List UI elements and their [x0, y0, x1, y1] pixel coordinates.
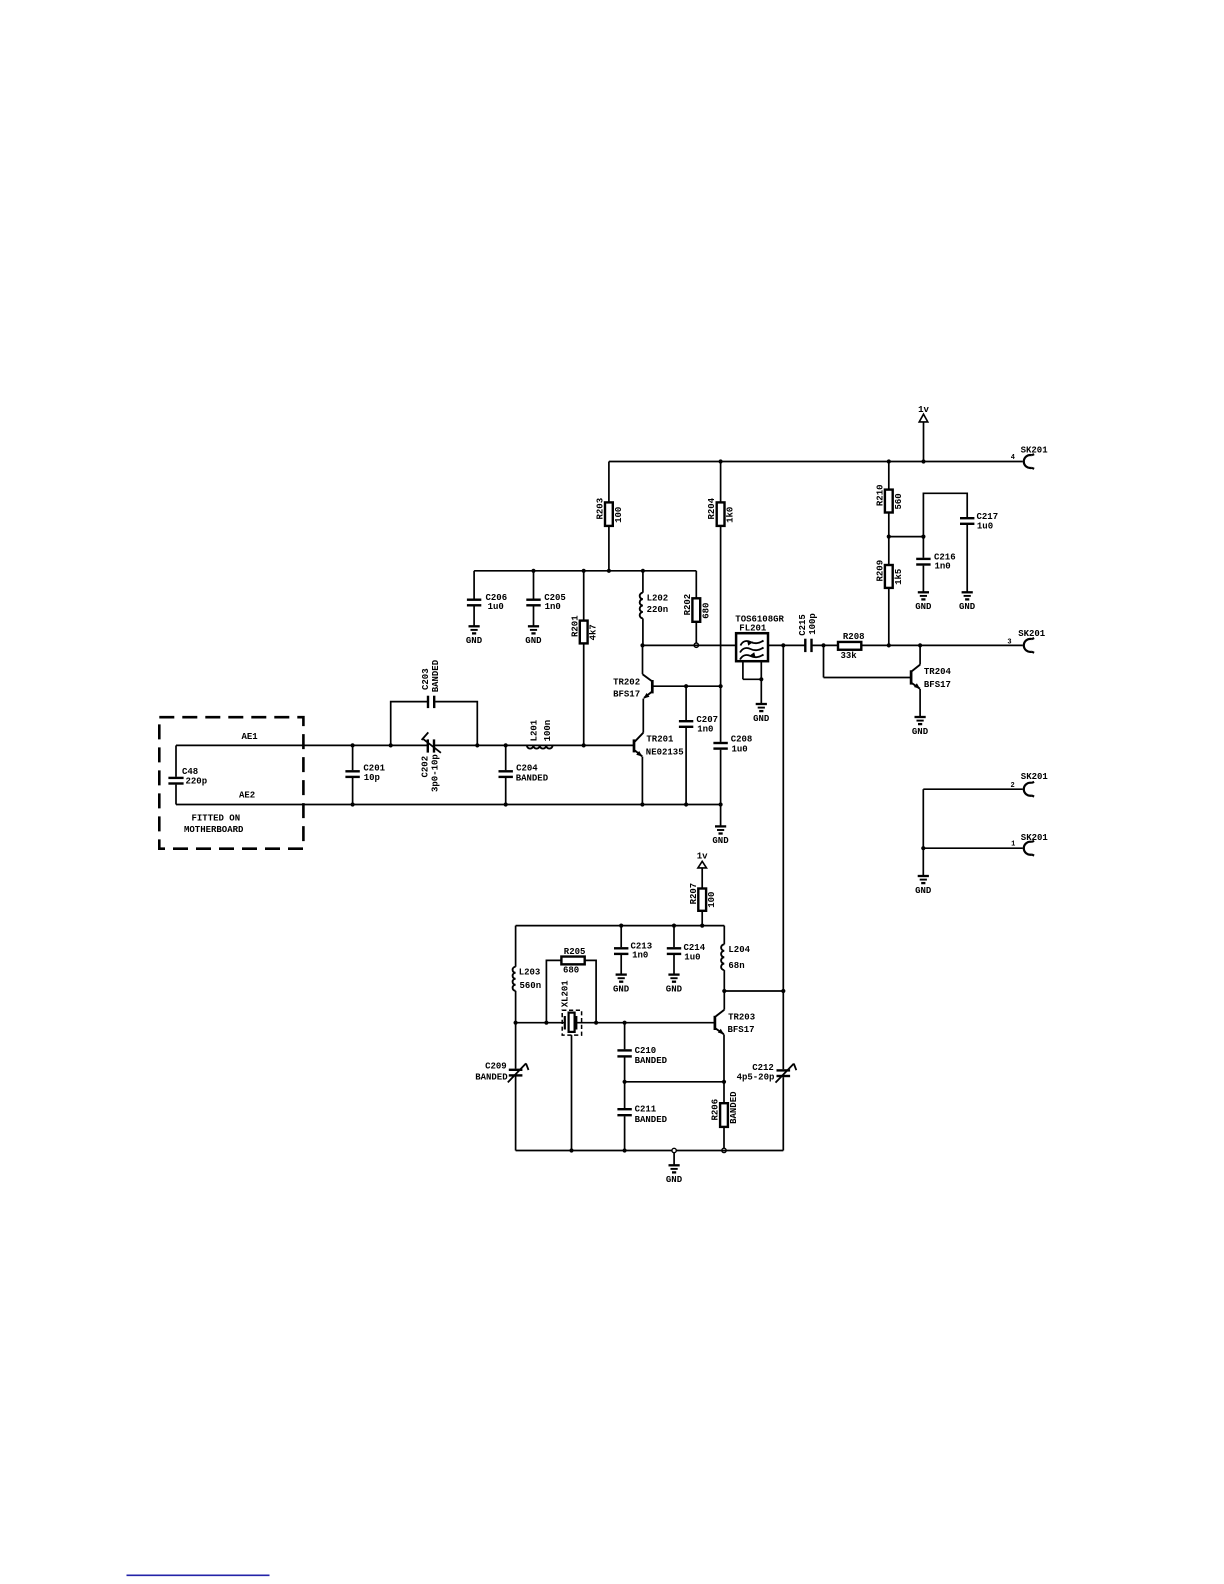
junction [641, 569, 645, 573]
junction [821, 643, 825, 647]
svg-text:L204: L204 [728, 945, 750, 955]
resistor R202 [683, 594, 711, 622]
svg-text:SK201: SK201 [1018, 629, 1046, 639]
wire [435, 702, 477, 746]
resistor R207 [689, 883, 717, 911]
wire [474, 570, 696, 572]
wire [583, 571, 585, 621]
svg-text:4k7: 4k7 [589, 624, 599, 640]
inductor L202 [640, 593, 669, 619]
wire [760, 679, 762, 703]
svg-text:1k5: 1k5 [894, 569, 904, 585]
svg-text:1u0: 1u0 [732, 744, 748, 754]
ground [525, 626, 542, 646]
wire [720, 686, 722, 742]
svg-text:R209: R209 [875, 560, 885, 582]
capacitor C216 [916, 552, 955, 571]
svg-text:220p: 220p [186, 776, 208, 786]
wire [624, 1023, 626, 1050]
inductor L204 [721, 944, 751, 971]
node emitter wire [625, 1081, 724, 1083]
svg-text:C208: C208 [731, 735, 753, 745]
resistor R210 [875, 484, 903, 512]
svg-text:33k: 33k [841, 651, 858, 661]
capacitor C206 [467, 593, 507, 612]
wire [685, 728, 687, 805]
wire [571, 1035, 573, 1150]
wire [583, 643, 585, 745]
transistor TR201 NE02135 [634, 733, 684, 758]
svg-text:SK201: SK201 [1021, 833, 1049, 843]
svg-text:C204: C204 [516, 764, 538, 774]
wire [922, 566, 924, 592]
connector SK201 pin 4 [1011, 446, 1048, 469]
junction [887, 535, 891, 539]
transistor TR202 BFS17 [613, 645, 652, 699]
wire [923, 788, 1023, 790]
resistor R206 [711, 1091, 739, 1127]
wire [888, 513, 890, 537]
svg-text:GND: GND [912, 727, 929, 737]
svg-text:BANDED: BANDED [475, 1073, 508, 1083]
svg-text:C210: C210 [635, 1046, 657, 1056]
svg-text:R206: R206 [711, 1099, 721, 1121]
svg-text:GND: GND [525, 636, 542, 646]
wire [391, 702, 427, 746]
wire [585, 960, 596, 1022]
svg-text:R201: R201 [570, 615, 580, 637]
svg-text:R202: R202 [683, 594, 693, 616]
wire [724, 990, 783, 992]
wire [823, 645, 825, 677]
svg-text:BFS17: BFS17 [613, 690, 640, 700]
svg-text:4p5-20p: 4p5-20p [737, 1073, 775, 1083]
node AE1 wire [176, 744, 427, 746]
junction [672, 1148, 676, 1152]
wire [888, 588, 890, 646]
junction [619, 924, 623, 928]
svg-text:TR202: TR202 [613, 677, 640, 687]
svg-text:220n: 220n [647, 605, 669, 615]
svg-text:1n0: 1n0 [697, 725, 713, 735]
wire [742, 661, 744, 679]
capacitor C203 [421, 659, 441, 708]
connector SK201 pin 3 [1007, 629, 1045, 653]
wire [782, 645, 784, 1069]
resistor R209 [875, 560, 903, 588]
wire [515, 926, 517, 967]
wire [620, 955, 622, 974]
node AE2 wire [176, 804, 721, 806]
power 1v [918, 405, 929, 462]
wire [685, 686, 687, 720]
svg-text:GND: GND [466, 636, 483, 646]
ground [753, 704, 770, 724]
svg-text:L201: L201 [530, 719, 540, 741]
junction [719, 684, 723, 688]
wire [643, 644, 737, 646]
svg-text:1n0: 1n0 [935, 562, 951, 572]
wire [701, 911, 703, 926]
wire [824, 677, 912, 679]
capacitor C214 [667, 943, 706, 963]
wire [922, 848, 924, 875]
svg-text:GND: GND [915, 602, 932, 612]
svg-text:AE1: AE1 [242, 732, 259, 742]
trimmer capacitor C202 [421, 732, 441, 792]
trimmer capacitor C212 [737, 1063, 797, 1151]
svg-text:TR203: TR203 [728, 1012, 755, 1022]
junction [531, 569, 535, 573]
wire [620, 926, 622, 948]
wire [889, 536, 924, 538]
wire [723, 1127, 725, 1149]
svg-text:10p: 10p [364, 773, 380, 783]
capacitor C205 [526, 593, 566, 612]
junction [514, 1021, 518, 1025]
wire [515, 991, 517, 1023]
svg-text:BANDED: BANDED [729, 1091, 739, 1124]
wire [723, 970, 725, 991]
junction [569, 1148, 573, 1152]
wire [673, 1153, 675, 1165]
junction [921, 846, 925, 850]
crystal XL201 [561, 980, 582, 1035]
svg-text:100: 100 [614, 507, 624, 523]
ground [915, 592, 932, 612]
wire [673, 955, 675, 974]
resistor R203 [596, 498, 624, 526]
junction [582, 569, 586, 573]
capacitor C48 [168, 745, 207, 804]
power 1v [697, 852, 708, 889]
wire [546, 960, 561, 1022]
svg-text:BANDED: BANDED [516, 773, 549, 783]
svg-text:NE02135: NE02135 [646, 748, 684, 758]
svg-text:1n0: 1n0 [545, 602, 561, 612]
node bottom rail [516, 1150, 784, 1152]
ground [613, 975, 630, 995]
wire [966, 525, 968, 592]
junction [719, 459, 723, 463]
svg-text:1u0: 1u0 [684, 952, 700, 962]
svg-text:100n: 100n [543, 720, 553, 742]
junction [607, 569, 611, 573]
svg-text:1n0: 1n0 [632, 951, 648, 961]
svg-text:BANDED: BANDED [635, 1115, 668, 1125]
svg-text:560: 560 [894, 493, 904, 509]
svg-text:C214: C214 [684, 943, 706, 953]
connector SK201 pin 2 [1011, 772, 1049, 797]
svg-text:R204: R204 [707, 497, 717, 519]
svg-text:AE2: AE2 [239, 790, 255, 800]
wire [576, 1022, 715, 1024]
junction [582, 743, 586, 747]
svg-text:L202: L202 [647, 593, 669, 603]
junction [887, 643, 891, 647]
svg-text:BFS17: BFS17 [924, 680, 951, 690]
svg-text:TR201: TR201 [646, 735, 674, 745]
junction [887, 459, 891, 463]
wire [723, 1034, 725, 1081]
junction [700, 924, 704, 928]
junction [694, 643, 698, 647]
svg-text:2: 2 [1011, 782, 1015, 790]
svg-text:BANDED: BANDED [635, 1056, 668, 1066]
svg-text:R208: R208 [843, 632, 865, 642]
svg-text:C209: C209 [485, 1062, 507, 1072]
junction [351, 743, 355, 747]
filter FL201 TOS6108GR [735, 615, 784, 662]
wire [922, 789, 924, 848]
svg-text:GND: GND [915, 886, 932, 896]
junction [722, 989, 726, 993]
wire [695, 571, 697, 599]
junction [672, 924, 676, 928]
svg-text:680: 680 [563, 966, 579, 976]
svg-text:R210: R210 [875, 484, 885, 506]
wire [861, 644, 1023, 646]
wire [641, 757, 643, 805]
capacitor C215 [798, 613, 818, 652]
junction [351, 802, 355, 806]
svg-text:SK201: SK201 [1021, 446, 1049, 456]
svg-text:L203: L203 [519, 968, 541, 978]
wire [642, 699, 644, 733]
svg-text:1u0: 1u0 [488, 602, 504, 612]
junction [544, 1021, 548, 1025]
wire [608, 462, 610, 503]
svg-text:1v: 1v [918, 405, 929, 415]
svg-text:GND: GND [666, 1175, 683, 1185]
wire [533, 606, 535, 626]
wire [505, 778, 507, 805]
resistor R205 [561, 947, 585, 976]
wire [768, 644, 805, 646]
wire [923, 493, 967, 536]
ground [666, 1165, 683, 1185]
wire [720, 805, 722, 827]
junction [684, 684, 688, 688]
wire [922, 537, 924, 558]
transistor TR203 BFS17 [715, 991, 755, 1035]
svg-text:3: 3 [1007, 638, 1011, 646]
junction [623, 1080, 627, 1084]
wire [673, 926, 675, 948]
svg-text:1u0: 1u0 [977, 522, 993, 532]
junction [623, 1021, 627, 1025]
svg-text:100p: 100p [808, 613, 818, 635]
wire [624, 1082, 626, 1108]
wire [473, 606, 475, 626]
ground [959, 592, 976, 612]
svg-text:TR204: TR204 [924, 667, 952, 677]
resistor R201 [570, 615, 598, 644]
node oscillator rail [516, 925, 725, 927]
svg-text:C215: C215 [798, 614, 808, 636]
svg-text:4: 4 [1011, 454, 1015, 462]
svg-text:C207: C207 [696, 715, 718, 725]
svg-text:C203: C203 [421, 668, 431, 690]
svg-text:MOTHERBOARD: MOTHERBOARD [184, 825, 244, 835]
svg-text:XL201: XL201 [561, 980, 571, 1008]
capacitor C211 [617, 1105, 667, 1125]
wire [608, 526, 610, 571]
svg-text:SK201: SK201 [1021, 772, 1049, 782]
junction [389, 743, 393, 747]
wire [352, 778, 354, 805]
footer rule [127, 1574, 270, 1576]
junction [918, 643, 922, 647]
junction [781, 989, 785, 993]
junction [722, 1148, 726, 1152]
svg-text:C202: C202 [421, 756, 431, 778]
junction [640, 643, 644, 647]
inductor L203 [513, 967, 542, 991]
ground [466, 626, 483, 646]
inductor L201 [527, 719, 553, 748]
svg-text:R205: R205 [564, 947, 586, 957]
svg-text:100: 100 [707, 892, 717, 908]
svg-text:FITTED ON: FITTED ON [192, 814, 241, 824]
junction [640, 802, 644, 806]
junction [623, 1148, 627, 1152]
svg-text:BFS17: BFS17 [728, 1025, 755, 1035]
capacitor C204 [499, 764, 549, 784]
svg-text:BANDED: BANDED [431, 659, 441, 692]
wire [435, 744, 634, 746]
ground [712, 826, 729, 846]
wire [923, 847, 1023, 849]
wire [624, 1116, 626, 1150]
wire [888, 462, 890, 490]
svg-text:C212: C212 [752, 1063, 774, 1073]
capacitor C213 [614, 941, 652, 960]
trimmer capacitor C209 [475, 1023, 528, 1151]
capacitor C208 [713, 735, 752, 755]
antenna box (fitted on motherboard) [159, 717, 303, 849]
junction [759, 677, 763, 681]
junction [921, 459, 925, 463]
junction [594, 1021, 598, 1025]
wire [642, 571, 644, 593]
capacitor C210 [617, 1046, 667, 1066]
svg-text:R207: R207 [689, 883, 699, 905]
wire [720, 750, 722, 805]
svg-text:GND: GND [666, 984, 683, 994]
wire [652, 685, 720, 687]
wire [760, 661, 762, 679]
svg-text:1k0: 1k0 [726, 507, 736, 523]
connector SK201 pin 1 [1011, 833, 1048, 856]
junction [504, 743, 508, 747]
svg-text:68n: 68n [728, 961, 744, 971]
wire [723, 1082, 725, 1103]
svg-text:GND: GND [753, 714, 770, 724]
junction [781, 643, 785, 647]
svg-text:3p0-10p: 3p0-10p [431, 754, 441, 792]
svg-text:R203: R203 [596, 498, 606, 520]
svg-text:680: 680 [701, 603, 711, 619]
wire [695, 622, 697, 643]
svg-text:560n: 560n [520, 981, 542, 991]
junction [921, 535, 925, 539]
wire [919, 689, 921, 717]
wire [720, 462, 722, 503]
resistor R204 [707, 497, 735, 526]
resistor R208 [838, 632, 865, 661]
junction [684, 802, 688, 806]
wire [743, 678, 761, 680]
svg-text:FL201: FL201 [739, 624, 767, 634]
capacitor C207 [679, 715, 718, 735]
svg-text:GND: GND [613, 984, 630, 994]
wire [723, 926, 725, 945]
svg-text:1: 1 [1011, 841, 1015, 849]
junction [504, 802, 508, 806]
wire [533, 571, 535, 599]
svg-text:C201: C201 [363, 763, 385, 773]
ground [666, 975, 683, 995]
svg-text:1v: 1v [697, 852, 708, 862]
wire [624, 1058, 626, 1082]
wire [812, 644, 839, 646]
capacitor C217 [960, 512, 998, 531]
ground [912, 717, 929, 737]
junction [722, 1080, 726, 1084]
wire [516, 1022, 565, 1024]
wire [609, 461, 1023, 463]
junction [719, 802, 723, 806]
svg-text:C211: C211 [635, 1105, 657, 1115]
junction [475, 743, 479, 747]
wire [642, 618, 644, 645]
ground [915, 876, 932, 896]
wire [473, 571, 475, 599]
wire [505, 745, 507, 770]
transistor TR204 BFS17 [911, 645, 951, 690]
svg-text:GND: GND [712, 836, 729, 846]
svg-text:GND: GND [959, 602, 976, 612]
wire [888, 537, 890, 565]
wire [352, 745, 354, 770]
capacitor C201 [345, 763, 385, 783]
wire [720, 526, 722, 686]
